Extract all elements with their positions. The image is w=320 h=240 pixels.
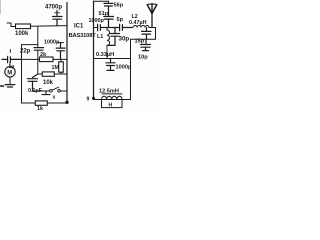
svg-text:4700p: 4700p	[45, 5, 62, 11]
wire: center rail x67	[66, 3, 68, 103]
svg-text:L1: L1	[97, 34, 103, 40]
svg-text:1M: 1M	[52, 65, 60, 71]
wire: y91 to switch	[33, 90, 50, 92]
scan edge artifact	[0, 0, 2, 14]
resistor 10k	[42, 72, 54, 76]
capacitor 1u mic coupling	[2, 50, 22, 63]
svg-text:BAS3108T: BAS3108T	[69, 33, 97, 39]
wire: top corner to cap chain	[94, 1, 109, 3]
capacitor 22p (inline on x38)	[34, 48, 44, 51]
ground under mic	[5, 85, 15, 87]
capacitor 1000p RF series	[98, 24, 120, 31]
wire: bottom left y103	[22, 102, 36, 104]
antenna	[147, 4, 157, 28]
capacitor 10p	[141, 39, 151, 50]
inductor L1 vertical	[107, 28, 110, 59]
wire: audio line y59	[22, 58, 40, 60]
svg-text:1000p: 1000p	[116, 65, 132, 71]
inductor L2 horizontal	[133, 26, 152, 28]
svg-text:22p: 22p	[20, 49, 31, 55]
wire: RF line y27.5	[94, 27, 98, 29]
inductor 12.5mH coil with core	[94, 94, 131, 100]
capacitor 5p series	[120, 24, 132, 31]
capacitor 30p tank	[107, 28, 120, 46]
svg-text:x: x	[53, 95, 56, 101]
svg-text:9: 9	[87, 97, 90, 103]
wire: right rail upper part	[130, 39, 132, 58]
wire: corner y44.5 to left rail	[22, 45, 38, 103]
svg-text:IC1: IC1	[74, 24, 84, 30]
svg-text:2k: 2k	[40, 52, 47, 58]
svg-text:56p: 56p	[114, 2, 124, 8]
svg-text:10p: 10p	[138, 55, 148, 61]
resistor 1k bottom	[35, 101, 47, 105]
resistor 100k	[16, 24, 31, 29]
wire: right rail x130.5 down	[130, 59, 132, 100]
wire: main horizontal y26 from 100k to center rail	[31, 25, 68, 28]
svg-text:1000p: 1000p	[44, 39, 60, 45]
svg-text:0.47µH: 0.47µH	[129, 20, 147, 26]
svg-text:M: M	[7, 70, 12, 76]
resistor 2k	[40, 57, 54, 62]
ground tap at x46	[42, 91, 50, 95]
svg-text:H: H	[109, 103, 113, 109]
microphone M	[5, 62, 15, 84]
wire: right rail x93.5	[93, 1, 95, 98]
capacitor 4700p	[53, 11, 63, 26]
svg-text:1000p: 1000p	[89, 18, 105, 24]
wire: mid line y58.5	[94, 58, 131, 60]
svg-text:5p: 5p	[117, 17, 124, 23]
resistor 1M vertical	[59, 62, 64, 72]
junction dot left of coil	[92, 97, 95, 100]
svg-text:10k: 10k	[43, 80, 54, 86]
wire: vertical branch x38 down from y26	[37, 26, 39, 47]
capacitor 1000p decoupling	[106, 59, 115, 71]
svg-text:0.33µH: 0.33µH	[96, 52, 114, 58]
capacitor 0.1uF	[28, 74, 38, 91]
capacitor 15p	[142, 28, 152, 40]
capacitor 51p	[104, 17, 114, 28]
switch S	[50, 87, 67, 92]
inductor can box	[102, 100, 123, 108]
svg-text:100k: 100k	[15, 31, 29, 37]
svg-text:30p: 30p	[119, 35, 130, 42]
wire: node line y39 from x130.5 to antenna jog	[131, 38, 156, 40]
capacitor 1000p audio	[56, 43, 65, 60]
wire: y59 from 2k to rail	[53, 58, 67, 60]
edge blob bottom-left	[0, 85, 4, 87]
wire: y74 line	[38, 73, 42, 75]
svg-text:1k: 1k	[37, 106, 43, 110]
capacitor 56p	[104, 3, 113, 16]
junction dot bottom of center rail	[65, 101, 68, 104]
svg-text:51p: 51p	[99, 11, 109, 17]
wire: top feed stub left edge	[7, 23, 16, 27]
wire: antenna jog down to cap node	[152, 28, 156, 40]
